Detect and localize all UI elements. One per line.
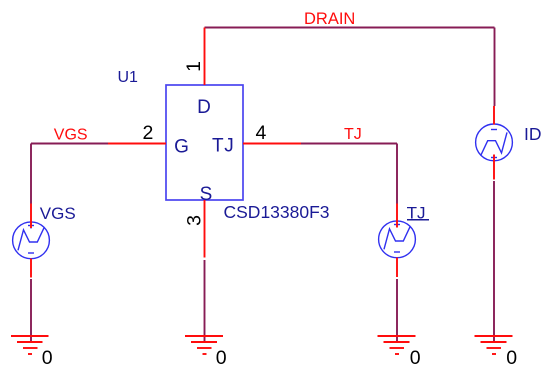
current/voltage source ID (476, 124, 513, 161)
ground 0 (under U1 source pin) (185, 336, 223, 354)
ground 0 (right, under ID) (475, 336, 513, 354)
svg-text:TJ: TJ (212, 135, 235, 156)
TJ source bottom pin stub (396, 258, 398, 278)
svg-text:U1: U1 (118, 69, 139, 86)
wire DRAIN right vertical (494, 28, 496, 107)
wire TJ source to ground (396, 279, 398, 343)
pin 3 stub (source) (204, 200, 206, 258)
svg-text:S: S (200, 184, 213, 205)
wire VGS source to ground (30, 279, 32, 343)
ID source top pin stub (493, 106, 495, 125)
svg-text:4: 4 (256, 122, 267, 144)
wire ID source to ground (493, 181, 495, 343)
svg-text:2: 2 (143, 122, 154, 144)
ID source bottom pin stub (493, 155, 495, 180)
svg-text:0: 0 (410, 347, 421, 369)
ground 0 (left) (11, 336, 49, 354)
ground 0 (under TJ source) (378, 336, 416, 354)
svg-text:DRAIN: DRAIN (304, 10, 355, 28)
wire VGS horizontal (31, 143, 108, 145)
pin 1 stub (drain) (204, 28, 206, 86)
svg-text:0: 0 (216, 347, 227, 369)
transistor U1 body (CSD13380F3) (166, 85, 243, 200)
wire TJ vertical (396, 144, 398, 204)
VGS source bottom pin stub (30, 259, 32, 278)
pin 4 stub (TJ) (243, 143, 301, 145)
wire VGS vertical (30, 144, 32, 204)
VGS source top pin stub (30, 204, 32, 229)
svg-text:0: 0 (42, 347, 53, 369)
svg-text:ID: ID (524, 124, 542, 144)
svg-text:CSD13380F3: CSD13380F3 (224, 202, 330, 222)
wire TJ horizontal (301, 143, 397, 145)
svg-text:1: 1 (183, 61, 205, 72)
wire DRAIN top horizontal (205, 27, 495, 29)
TJ source top pin stub (396, 204, 398, 228)
svg-text:VGS: VGS (40, 204, 76, 223)
svg-text:3: 3 (183, 215, 205, 226)
svg-text:VGS: VGS (54, 126, 88, 143)
voltage source VGS (13, 222, 50, 259)
svg-text:D: D (197, 97, 211, 118)
svg-text:G: G (174, 136, 189, 157)
voltage source TJ (379, 221, 416, 258)
svg-text:0: 0 (506, 347, 517, 369)
wire pin3 to ground (204, 260, 206, 343)
svg-text:TJ: TJ (344, 126, 362, 143)
pin 2 stub (gate) (108, 143, 166, 145)
